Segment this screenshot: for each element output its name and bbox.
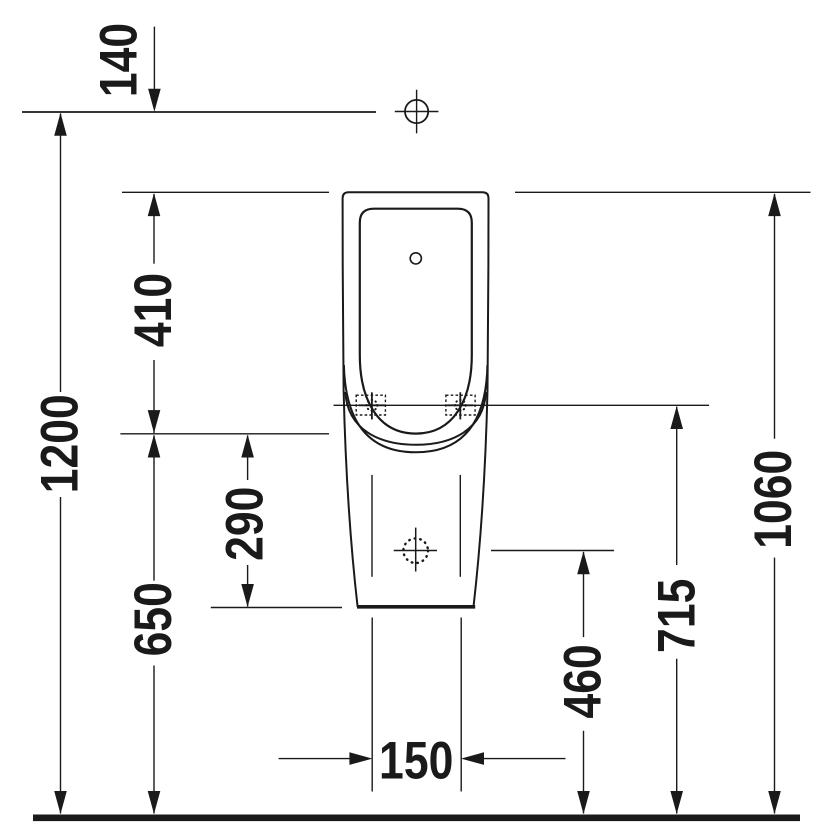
hidden outlet edge left [371, 475, 373, 577]
svg-text:1200: 1200 [31, 394, 89, 493]
svg-text:715: 715 [648, 579, 706, 653]
urinal outer outline [343, 192, 489, 607]
mounting hole right: dashed box [446, 395, 475, 415]
top reference line (1200 level) [22, 111, 376, 113]
extension line: urinal top, left side [122, 191, 329, 193]
dimension 1060 [744, 193, 802, 814]
urinal bottom edge [357, 605, 475, 609]
inlet hole circle [410, 253, 421, 264]
inner rim (basin opening) [360, 209, 472, 434]
dimension 1200 [31, 113, 89, 814]
mounting hole left: cross + dotted circle [359, 392, 385, 419]
svg-text:650: 650 [124, 582, 182, 656]
floor bar [33, 815, 800, 822]
svg-text:140: 140 [90, 23, 148, 97]
svg-text:410: 410 [124, 273, 182, 347]
water supply symbol (circle-cross) [395, 90, 439, 134]
inner lip curve [345, 392, 486, 445]
extension line below body left (150) [371, 618, 373, 792]
svg-text:1060: 1060 [744, 450, 802, 549]
mounting-holes level line [334, 404, 710, 406]
drain level line (460) [491, 550, 614, 552]
drain cross [394, 528, 437, 572]
dimension 715 [648, 406, 706, 814]
body bottom level line (290) [211, 607, 342, 609]
dimension 140 [90, 23, 161, 112]
outer lip curve [344, 365, 488, 452]
mounting hole right: cross + dotted circle [447, 392, 473, 419]
dimension 150 [279, 732, 566, 790]
extension line: urinal top, right side [515, 191, 811, 193]
svg-text:290: 290 [216, 487, 274, 561]
svg-text:150: 150 [379, 732, 453, 790]
dimension 290 [216, 435, 274, 608]
dimension 410 [124, 193, 182, 433]
mounting hole left: dashed box [356, 395, 385, 415]
dimension 460 [554, 551, 612, 814]
extension line below body right (150) [460, 618, 462, 792]
hidden outlet edge right [459, 475, 461, 577]
650 level line [120, 433, 329, 435]
svg-text:460: 460 [554, 644, 612, 718]
dimension 650 [124, 435, 182, 815]
